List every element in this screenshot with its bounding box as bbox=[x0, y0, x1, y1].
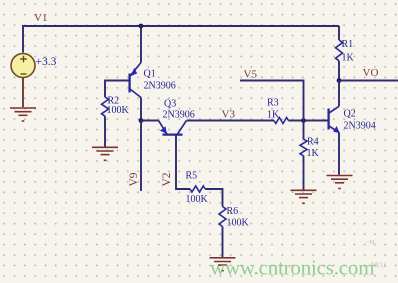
ground below source bbox=[10, 108, 36, 121]
voltage source V1 +3.3 bbox=[11, 54, 35, 78]
resistor R2 zigzag bbox=[102, 97, 109, 116]
wire: R2 bottom lead bbox=[104, 116, 106, 146]
wire: R4 bottom lead bbox=[303, 156, 305, 190]
node junction Q1 collector / Q3 emitter / V9 bbox=[139, 118, 144, 123]
wire: Q2 collector lead bbox=[338, 81, 340, 107]
wire: top rail from source to R1 bbox=[23, 26, 339, 53]
svg-text:1K: 1K bbox=[267, 110, 280, 121]
wire: V5 stub bbox=[240, 81, 304, 121]
resistor R6 zigzag bbox=[219, 207, 226, 227]
svg-text:R1: R1 bbox=[342, 39, 354, 50]
wire: Q3 collector to R3 with net V3 bbox=[187, 120, 275, 122]
resistor R3 zigzag bbox=[274, 118, 288, 124]
svg-text:2N3904: 2N3904 bbox=[344, 121, 376, 132]
svg-text:R6: R6 bbox=[227, 206, 239, 217]
node junction R1/Q2 collector/VO bbox=[337, 78, 342, 83]
Q1 emitter arrow (points into base, PNP) bbox=[131, 68, 138, 76]
svg-text:V3: V3 bbox=[222, 109, 236, 121]
wire: V9 stub down bbox=[140, 121, 142, 192]
resistor R5 zigzag bbox=[190, 186, 205, 192]
svg-text:www.cntronics.com: www.cntronics.com bbox=[210, 256, 374, 280]
svg-text:V2: V2 bbox=[161, 172, 173, 186]
svg-text:Q2: Q2 bbox=[344, 109, 356, 120]
transistor Q3 2N3906 (PNP, rotated) bbox=[159, 121, 187, 135]
ground below R6 bbox=[210, 258, 236, 271]
wire: VO output bbox=[339, 80, 398, 82]
svg-text:VO: VO bbox=[363, 67, 379, 79]
resistor R4 zigzag bbox=[300, 139, 307, 156]
wire: Q1 base to R2 corner bbox=[105, 81, 129, 98]
svg-text:V5: V5 bbox=[244, 69, 258, 81]
node junction at top rail / Q1 emitter bbox=[139, 24, 144, 29]
svg-text:M(1): M(1) bbox=[371, 261, 386, 269]
transistor Q2 2N3904 (NPN) bbox=[329, 106, 339, 132]
wire: R4 top lead bbox=[303, 121, 305, 140]
svg-text:100K: 100K bbox=[227, 218, 250, 229]
wire: Q3 base lead down and over to R5 bbox=[176, 135, 190, 189]
svg-text:2N3906: 2N3906 bbox=[163, 110, 195, 121]
svg-text:Q3: Q3 bbox=[164, 99, 176, 110]
svg-text:1K: 1K bbox=[307, 148, 320, 159]
ground below R2 bbox=[92, 147, 118, 160]
svg-text:V1: V1 bbox=[34, 12, 47, 24]
wire: R1 top lead bbox=[338, 26, 340, 40]
wire: Q2 emitter lead bbox=[338, 133, 340, 175]
wire: source bottom lead bbox=[22, 78, 24, 107]
svg-text:R5: R5 bbox=[186, 171, 198, 182]
Q2 emitter arrow (points out, NPN) bbox=[333, 126, 340, 133]
resistor R1 zigzag bbox=[336, 40, 343, 61]
wire: R1 bottom lead to node bbox=[338, 61, 340, 81]
svg-text:R4: R4 bbox=[307, 137, 319, 148]
Q3 emitter arrow (points into base) bbox=[160, 126, 167, 133]
svg-text:Q1: Q1 bbox=[144, 69, 156, 80]
svg-text:1K: 1K bbox=[342, 53, 355, 64]
node junction R3/R4/V5 bbox=[301, 118, 306, 123]
wire: R5 to R6 bbox=[205, 189, 222, 207]
ground below Q2 bbox=[327, 176, 353, 189]
wire: node to Q3 emitter bbox=[141, 120, 159, 122]
svg-text:V9: V9 bbox=[128, 172, 140, 186]
svg-text:R3: R3 bbox=[267, 98, 279, 109]
svg-text:~M: ~M bbox=[366, 240, 375, 246]
svg-text:100K: 100K bbox=[107, 105, 130, 116]
ground below R4 bbox=[291, 190, 317, 203]
wire: R6 bottom lead bbox=[222, 227, 224, 258]
svg-text:100K: 100K bbox=[186, 194, 209, 205]
wire: Q1 emitter lead bbox=[140, 26, 142, 63]
transistor Q1 2N3906 (PNP) bbox=[130, 63, 141, 98]
svg-text:2N3906: 2N3906 bbox=[144, 81, 176, 92]
wire: Q1 collector lead down to node bbox=[140, 98, 142, 121]
wire: R3 to Q2 base bbox=[288, 120, 328, 122]
svg-text:+3.3: +3.3 bbox=[36, 56, 57, 68]
